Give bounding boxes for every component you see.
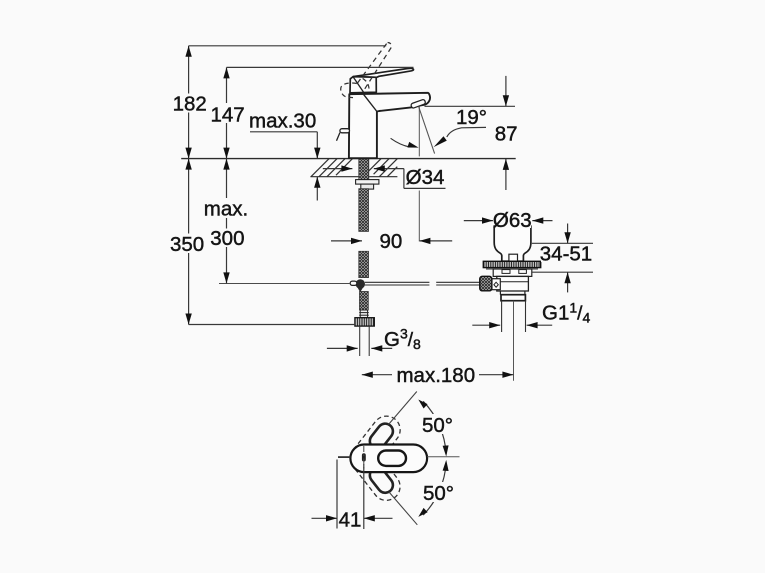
upper 50deg arc with arrowheads	[423, 401, 446, 454]
flexible braided hose upper segment	[359, 189, 369, 232]
cap internal edge	[353, 77, 363, 92]
horizontal pop-up linkage rod segment 1	[365, 282, 430, 285]
90 dimension	[331, 240, 362, 242]
svg-text:max.: max.	[204, 198, 248, 221]
lower 50deg line	[389, 492, 417, 525]
87 dimension	[505, 76, 507, 106]
faucet threaded shank through counter	[359, 159, 369, 180]
label 350	[170, 234, 206, 253]
label max.	[203, 198, 249, 218]
G3/8 connection nut	[355, 318, 374, 326]
drain assembly: funnel top	[494, 226, 531, 261]
flexible braided hose lower segment	[359, 251, 369, 277]
countertop cross-section hatch left	[311, 159, 352, 177]
faucet base top view (stadium outline)	[350, 445, 427, 473]
drain main body	[497, 276, 529, 291]
hose connector rings	[359, 310, 369, 318]
spout swivel arc with arrowhead	[391, 138, 410, 147]
svg-text:Ø34: Ø34	[406, 166, 445, 189]
svg-text:87: 87	[495, 123, 518, 146]
connection tube below nut	[360, 326, 370, 356]
dashed lever raised position line 1	[358, 43, 388, 83]
dashed cap rotated outline	[341, 83, 357, 98]
top reference line (182 datum)	[189, 45, 387, 47]
spout height reference line (87 datum)	[425, 105, 516, 107]
pop-up pull rod stem	[337, 133, 340, 141]
svg-text:Ø63: Ø63	[493, 209, 532, 232]
svg-text:19°: 19°	[456, 106, 487, 129]
label 147	[210, 104, 245, 123]
horizontal reference line at rod level (max.300 datum)	[219, 283, 350, 285]
second reference line (147 datum)	[227, 66, 414, 68]
svg-text:41: 41	[339, 508, 362, 531]
drain lower neck	[500, 291, 525, 295]
svg-text:182: 182	[173, 93, 207, 116]
label 50deg lower	[422, 482, 455, 502]
svg-text:300: 300	[210, 227, 244, 250]
dashed lever raised position line 2 with tip	[365, 43, 392, 89]
max.180 dimension	[362, 374, 392, 376]
svg-text:max.180: max.180	[396, 364, 475, 387]
41 dimension	[336, 460, 338, 529]
faucet body outline	[349, 93, 430, 158]
svg-text:147: 147	[210, 104, 244, 127]
countertop top surface line	[181, 158, 516, 160]
label 182	[172, 94, 207, 113]
countertop cross-section hatch right	[364, 159, 397, 177]
aerator at spout tip	[411, 99, 426, 109]
water stream vertical reference line	[418, 107, 420, 157]
svg-text:34-51: 34-51	[540, 243, 592, 266]
lever handle cap	[350, 77, 376, 93]
svg-text:50°: 50°	[422, 414, 453, 437]
flange underline	[486, 268, 538, 270]
34-51 dimension	[532, 242, 593, 244]
drain tailpipe walls (G1 1/4)	[502, 301, 526, 332]
water stream angled line (19 deg)	[419, 107, 435, 154]
diameter 63 dimension	[464, 220, 493, 222]
pop-up rod hole (filled)	[362, 453, 366, 461]
hose short segment below ball joint	[360, 292, 369, 311]
diameter 34 dimension	[323, 168, 353, 170]
dimension line 182/350 vertical	[188, 46, 190, 325]
drain centerline	[513, 301, 515, 381]
dashed handle swing position upper (rotated -52deg)	[345, 411, 406, 478]
mounting nut	[361, 184, 374, 189]
faucet neck contour line	[364, 94, 377, 111]
handle slot top view	[378, 451, 406, 466]
G3/8 dimension	[327, 347, 358, 349]
svg-text:90: 90	[379, 230, 402, 253]
svg-text:350: 350	[170, 233, 204, 256]
label 50deg upper	[421, 414, 454, 434]
350 bottom reference line	[189, 324, 355, 326]
dashed cap inner arc	[363, 78, 370, 89]
svg-text:max.30: max.30	[249, 110, 316, 133]
drain knurled flange	[483, 261, 540, 267]
upper 50deg line	[389, 392, 417, 425]
dashed handle swing position lower (rotated +52deg)	[345, 439, 406, 506]
drain center tab	[509, 254, 518, 261]
rod connector block on drain	[492, 279, 500, 290]
drain funnel rim line	[494, 225, 531, 227]
vertical dash-dot centerline	[363, 446, 365, 472]
countertop underside line	[310, 176, 397, 178]
lower 50deg arc with arrowheads	[423, 463, 446, 516]
G1 1/4 dimension	[472, 324, 500, 326]
horizontal centerline right of stadium	[427, 456, 459, 458]
label 300	[209, 229, 246, 248]
arrowheads left dimension lines	[185, 46, 229, 325]
horizontal pop-up linkage rod segment 2	[436, 282, 480, 285]
drain collar ring	[501, 295, 525, 301]
dimension line 147/max300 vertical	[226, 67, 228, 283]
drain upper body with overflow slots	[493, 269, 532, 276]
svg-text:50°: 50°	[423, 482, 454, 505]
horseshoe washer under counter	[356, 180, 379, 185]
pop-up rod stub (top view)	[338, 456, 350, 458]
pop-up rod eyelet	[350, 281, 357, 285]
lever handle blade	[353, 68, 413, 77]
pop-up rod ball joint	[356, 279, 365, 288]
knurled adjuster knob on rod	[480, 276, 492, 291]
pop-up pull rod knob on body	[340, 129, 350, 133]
